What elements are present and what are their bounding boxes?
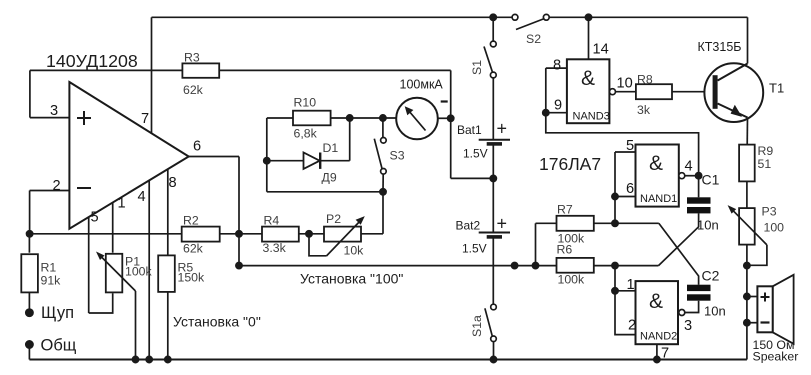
svg-text:1: 1 — [627, 277, 635, 293]
battery Bat2 1.5V — [456, 214, 511, 256]
wire NAND3 input feedback — [546, 113, 699, 176]
svg-text:Д9: Д9 — [322, 171, 337, 185]
svg-text:8: 8 — [169, 175, 177, 191]
wire C2 bottom to pin3 — [685, 301, 699, 313]
wire to R4 — [239, 233, 262, 235]
potentiometer P1 100k — [96, 252, 153, 293]
svg-text:140УД1208: 140УД1208 — [46, 51, 138, 71]
svg-text:Установка "100": Установка "100" — [300, 271, 403, 287]
pin 5 — [89, 210, 99, 314]
svg-text:R4: R4 — [264, 214, 280, 228]
speaker LS1 150 Ом — [753, 275, 799, 364]
pin 10 output bubble — [610, 76, 633, 95]
wire C1 bottom cross to R6 node — [659, 213, 699, 265]
wire Bat1 to Bat2 — [492, 144, 494, 233]
wire pin4 to C1 — [685, 175, 699, 177]
svg-text:9: 9 — [554, 98, 562, 114]
wire R10 right to meter — [331, 117, 397, 119]
svg-text:100мкА: 100мкА — [400, 78, 444, 92]
svg-text:4: 4 — [138, 189, 146, 205]
svg-text:100k: 100k — [125, 265, 153, 279]
svg-text:P3: P3 — [762, 205, 777, 219]
svg-text:P2: P2 — [326, 212, 341, 226]
wire D1 anode — [267, 160, 304, 162]
svg-text:+: + — [497, 119, 508, 139]
svg-text:6,8k: 6,8k — [294, 127, 318, 141]
node S1a rail junction — [490, 356, 496, 362]
svg-text:C2: C2 — [702, 268, 720, 284]
wire pin2 down — [29, 191, 31, 234]
node pin4 C1 junction — [696, 173, 702, 179]
svg-text:7: 7 — [661, 346, 669, 362]
svg-text:2: 2 — [53, 178, 61, 194]
svg-text:150k: 150k — [178, 271, 206, 285]
resistor R6 100k — [557, 243, 594, 287]
node Bat1 minus junction — [490, 175, 496, 181]
wire D1 cathode — [320, 160, 350, 162]
svg-text:R1: R1 — [41, 261, 57, 275]
svg-text:51: 51 — [758, 157, 772, 171]
meter 100мкА — [396, 78, 448, 140]
resistor R8 3k — [636, 73, 672, 118]
resistor R1 91k — [21, 254, 61, 292]
svg-text:5: 5 — [626, 138, 634, 154]
svg-text:91k: 91k — [41, 274, 62, 288]
wire between speaker terminals — [746, 297, 748, 323]
node S3 top junction — [380, 115, 386, 121]
resistor R7 100k — [557, 203, 594, 246]
pin 8 — [168, 169, 177, 255]
svg-text:Bat2: Bat2 — [456, 219, 481, 233]
pin 3 output bubble — [679, 310, 692, 335]
svg-text:3.3k: 3.3k — [263, 241, 287, 255]
wire pin3 to R3 — [29, 70, 31, 117]
pin 9 — [546, 98, 567, 114]
svg-text:6: 6 — [193, 139, 201, 155]
svg-text:S1: S1 — [470, 60, 484, 75]
gate NAND2 — [636, 281, 679, 344]
svg-text:&: & — [649, 290, 663, 313]
node output to R2/R4 — [236, 231, 242, 237]
node Общ common terminal — [26, 341, 33, 348]
pin 4 — [138, 181, 150, 360]
wire R3 right to meter node — [219, 69, 451, 71]
wire pins 1 2 tie — [615, 291, 636, 335]
svg-text:14: 14 — [593, 42, 609, 58]
wire P2 up to D1 node — [382, 192, 384, 234]
wire output down — [238, 157, 240, 266]
transistor Q1 КТ315Б T1 — [698, 40, 785, 122]
resistor R2 62k — [182, 214, 220, 256]
svg-text:R9: R9 — [758, 144, 774, 158]
op-amp U1 140УД1208 — [69, 82, 188, 229]
wire R4 right — [299, 233, 324, 235]
node P1 wiper rail junction — [132, 356, 138, 362]
wire R10 left — [267, 117, 293, 119]
node pin4 rail junction — [146, 356, 152, 362]
svg-text:4: 4 — [685, 159, 693, 175]
wire S1a to rail — [493, 342, 495, 360]
svg-text:3: 3 — [50, 103, 58, 119]
wire R2 right — [220, 233, 239, 235]
wire emitter down — [746, 118, 748, 145]
node R7 branch junction — [532, 263, 538, 269]
node P3 wiper junction — [744, 263, 750, 269]
wire Общ to bottom rail — [28, 345, 30, 360]
svg-text:S3: S3 — [390, 149, 405, 163]
capacitor C2 10n — [687, 268, 726, 319]
wire pins 5 6 tie — [614, 152, 616, 223]
svg-text:62k: 62k — [183, 242, 204, 256]
node pin7 rail junction — [654, 356, 660, 362]
pin 7 riser to rail — [141, 17, 152, 133]
wire down to meter right — [450, 70, 452, 178]
wire R5 bottom — [167, 291, 169, 360]
wire P3 wiper return — [747, 245, 767, 265]
wire pin5 to P1 bottom — [89, 293, 113, 313]
svg-text:+: + — [497, 214, 508, 234]
switch S3 — [374, 118, 404, 192]
svg-text:Speaker: Speaker — [753, 350, 799, 364]
wire pin10 to R8 — [616, 91, 636, 93]
resistor R9 51 — [739, 144, 773, 181]
svg-text:10n: 10n — [697, 218, 719, 233]
svg-text:C1: C1 — [702, 172, 720, 188]
battery Bat1 1.5V — [457, 119, 510, 161]
svg-text:Общ: Общ — [41, 337, 77, 355]
node inverting input junction — [27, 231, 33, 237]
potentiometer P2 10k — [324, 212, 365, 258]
svg-text:1.5V: 1.5V — [463, 147, 488, 161]
wire main feedback run — [30, 233, 182, 235]
wire speaker minus stub — [747, 322, 758, 324]
node NAND3 input junction — [543, 110, 549, 116]
gate NAND3 — [567, 59, 610, 123]
wire bottom rail — [29, 359, 747, 361]
pin 3 — [30, 103, 70, 119]
pin 14 — [589, 17, 609, 59]
svg-text:R7: R7 — [557, 203, 573, 217]
switch S1 — [470, 41, 496, 78]
svg-text:100k: 100k — [558, 273, 586, 287]
svg-text:S1a: S1a — [470, 315, 484, 337]
svg-text:&: & — [581, 67, 595, 90]
wire P3 bottom — [746, 245, 748, 297]
svg-text:62k: 62k — [183, 83, 204, 97]
svg-text:1: 1 — [118, 196, 126, 212]
potentiometer P3 100 — [728, 205, 785, 245]
switch S2 — [512, 14, 549, 46]
wire R7 node cross to C2 top — [659, 223, 699, 284]
wire oscillator feed — [239, 265, 557, 267]
pin 4 output bubble — [679, 159, 693, 179]
wire R1 top stub — [28, 234, 30, 253]
svg-text:R3: R3 — [184, 51, 200, 65]
pin 7 — [657, 344, 669, 361]
resistor R5 150k — [158, 255, 205, 292]
svg-text:S2: S2 — [526, 32, 541, 46]
pin 2 — [30, 178, 70, 194]
svg-text:1.5V: 1.5V — [462, 242, 487, 256]
node meter right junction — [448, 115, 454, 121]
wire R6 node to pin1 — [614, 266, 616, 291]
gate NAND1 — [636, 145, 679, 207]
pin 8 — [546, 58, 567, 74]
pin 5 — [615, 138, 636, 154]
node R5 rail junction — [165, 356, 171, 362]
wire R7 left — [536, 222, 557, 224]
svg-text:R10: R10 — [294, 96, 317, 110]
node speaker minus junction — [744, 320, 750, 326]
wire R10 D1 left rail — [266, 118, 268, 192]
svg-text:100: 100 — [764, 221, 785, 235]
wire top rail left segment — [152, 16, 513, 18]
wire R9 to P3 — [746, 181, 748, 208]
node R6 NAND2 input junction — [612, 263, 618, 269]
svg-text:10n: 10n — [704, 304, 726, 319]
wire speaker to rail — [746, 323, 748, 360]
wire S1 to rail — [492, 17, 494, 41]
svg-text:R6: R6 — [557, 243, 573, 257]
svg-text:Bat1: Bat1 — [457, 123, 482, 137]
wire S1 to Bat1 — [492, 78, 494, 140]
wire D1 loop bottom — [267, 191, 383, 193]
pin 1 — [113, 196, 126, 253]
pin 1 — [615, 277, 636, 293]
wire to Bat1 minus — [451, 177, 494, 179]
svg-text:3k: 3k — [637, 103, 651, 117]
node junction NAND3 pin14 riser — [585, 14, 591, 20]
node speaker plus junction — [744, 293, 750, 299]
wire R3 left — [30, 69, 183, 71]
resistor R4 3.3k — [262, 214, 299, 256]
node D1 anode junction — [264, 158, 270, 164]
svg-text:Установка "0": Установка "0" — [173, 314, 261, 330]
node feed dot — [511, 263, 517, 269]
wire P2 wiper return — [309, 234, 326, 256]
pin 6 output wire — [189, 139, 239, 157]
node junction S1 branch — [490, 14, 496, 20]
wire P1 wiper to rail — [135, 291, 137, 360]
resistor R10 6,8k — [293, 96, 331, 141]
svg-text:2: 2 — [628, 318, 636, 334]
wire R1 bottom stub — [28, 292, 30, 312]
node Щуп probe terminal — [26, 309, 33, 316]
svg-text:5: 5 — [91, 210, 99, 226]
pin 6 — [615, 181, 636, 197]
svg-text:176ЛА7: 176ЛА7 — [539, 154, 601, 174]
node D1 loop bottom junction — [380, 189, 386, 195]
svg-text:NAND3: NAND3 — [573, 111, 610, 123]
wire P2 right — [361, 233, 383, 235]
svg-text:D1: D1 — [323, 141, 339, 155]
node R4 P2 wiper junction — [306, 231, 312, 237]
svg-text:NAND1: NAND1 — [640, 193, 677, 205]
node NAND1 input junction — [612, 193, 618, 199]
wire R7 branch riser — [535, 223, 537, 265]
node output to oscillator wire — [236, 263, 242, 269]
wire R7 right — [594, 222, 659, 224]
wire speaker plus stub — [747, 296, 758, 298]
wire D1 cathode riser — [349, 118, 351, 161]
svg-text:&: & — [649, 152, 663, 175]
svg-text:КТ315Б: КТ315Б — [698, 40, 742, 54]
svg-text:T1: T1 — [769, 81, 784, 96]
node D1 cathode riser junction — [347, 115, 353, 121]
wire Bat2 to S1a — [492, 237, 494, 304]
wire collector riser — [747, 17, 749, 63]
wire pins 8 9 tie — [545, 68, 547, 113]
svg-text:Щуп: Щуп — [41, 304, 74, 322]
node R7 NAND1 input junction — [612, 220, 618, 226]
wire top rail right segment — [549, 16, 747, 18]
svg-text:6: 6 — [626, 181, 634, 197]
svg-text:R8: R8 — [637, 73, 653, 87]
svg-text:3: 3 — [684, 318, 692, 334]
wire R6 right — [594, 265, 659, 267]
resistor R3 62k — [182, 51, 219, 98]
capacitor C1 10n — [687, 172, 720, 233]
svg-text:NAND2: NAND2 — [640, 331, 677, 343]
svg-text:10: 10 — [617, 76, 633, 92]
svg-text:R2: R2 — [183, 214, 199, 228]
diode D1 Д9 — [304, 141, 339, 185]
svg-text:7: 7 — [141, 111, 149, 127]
node pin1 junction — [612, 288, 618, 294]
switch S1a — [470, 304, 496, 341]
wire R8 to base — [672, 91, 713, 93]
svg-text:10k: 10k — [344, 244, 365, 258]
svg-text:8: 8 — [553, 58, 561, 74]
wire meter right — [438, 117, 451, 119]
